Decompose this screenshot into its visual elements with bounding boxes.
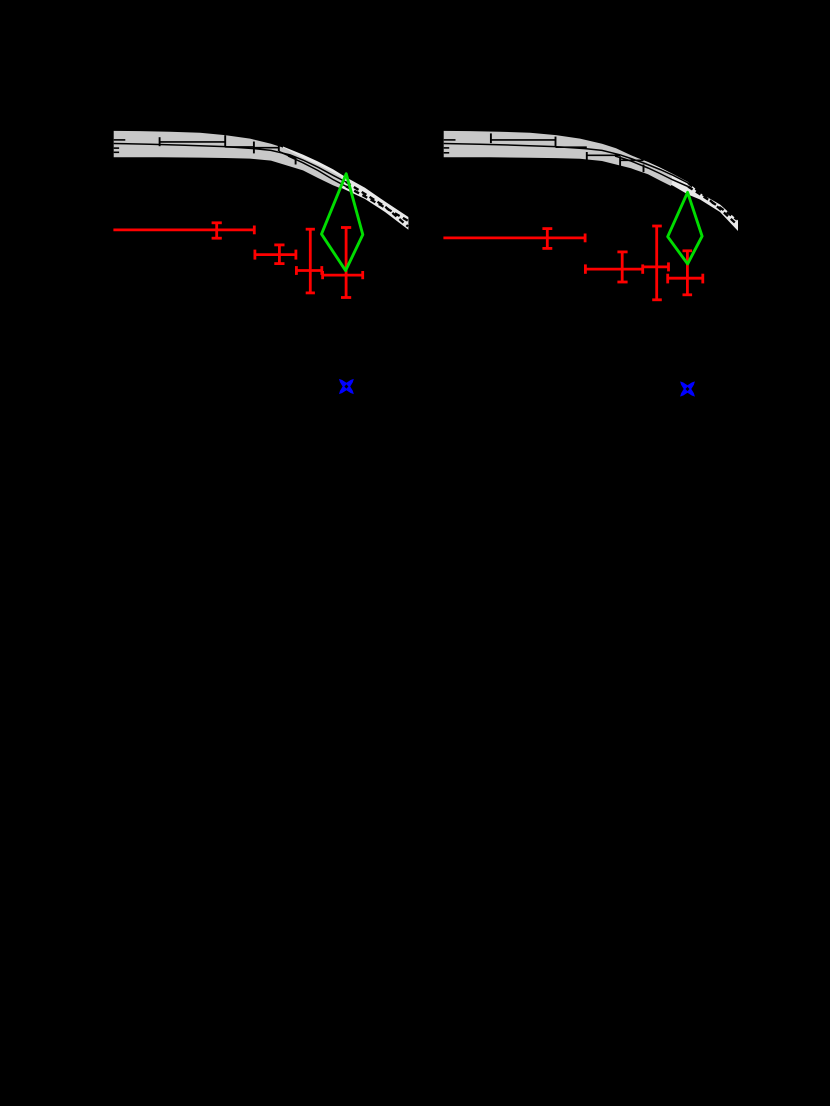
black tick bin edge 4, left panel xyxy=(278,146,280,152)
y-axis minor tick 2, left panel xyxy=(114,151,119,153)
black data bar bin1, right panel xyxy=(491,139,556,141)
black tick bin edge 2, right panel xyxy=(555,137,557,147)
black data bar bin4, left panel xyxy=(279,152,296,159)
black data bar bin2, right panel xyxy=(556,146,587,148)
theory curve 2 solid, left panel xyxy=(288,156,346,186)
black tick bin edge 1, left panel xyxy=(159,137,161,146)
dashed curve A, right panel xyxy=(688,183,737,225)
red data point 2, left panel xyxy=(255,245,296,264)
red data point 4, left panel xyxy=(323,228,363,298)
red data point 2, right panel xyxy=(585,252,642,282)
y-axis minor tick 1, right panel xyxy=(444,147,450,149)
dark grey uncertainty band, left panel xyxy=(114,131,343,189)
y-axis minor tick 2, right panel xyxy=(444,152,450,154)
green contour diamond, right panel xyxy=(668,192,702,264)
red data point 4, right panel xyxy=(668,251,703,295)
light uncertainty band (tail), left panel xyxy=(283,147,408,230)
blue star marker, left panel xyxy=(339,379,354,394)
theory curve 2 solid, right panel xyxy=(615,156,688,187)
black data bar bin4, right panel xyxy=(620,159,643,161)
black tick bin edge 4, right panel xyxy=(619,156,621,169)
red data point 3, left panel xyxy=(296,229,321,293)
blue star marker, right panel xyxy=(680,381,695,396)
light uncertainty band (tail), right panel xyxy=(612,150,738,232)
black tick bin edge 3, right panel xyxy=(586,152,588,164)
black data bar bin0, right panel xyxy=(444,139,456,141)
red data point 1, right panel xyxy=(443,229,585,249)
black data bar bin1, left panel xyxy=(160,141,226,143)
black tick bin edge 3, left panel xyxy=(253,142,255,154)
black tick bin edge 2, left panel xyxy=(224,135,226,147)
dark grey uncertainty band, right panel xyxy=(444,131,673,186)
black data bar bin3, left panel xyxy=(254,147,279,149)
dashed curve A, left panel xyxy=(346,182,408,227)
y-axis minor tick 1, left panel xyxy=(114,147,119,149)
black tick bin edge 5, left panel xyxy=(295,158,297,165)
theory curve 1 solid, left panel xyxy=(114,144,346,183)
theory curve 1 solid, right panel xyxy=(444,144,688,184)
red data point 1, left panel xyxy=(113,223,254,238)
red data point 3, right panel xyxy=(643,226,669,300)
dashed curve B, right panel xyxy=(688,187,737,220)
dashed curve B, left panel xyxy=(346,186,408,221)
black tick bin edge 1, right panel xyxy=(490,133,492,143)
black data bar bin3, right panel xyxy=(587,154,620,156)
black data bar bin0, left panel xyxy=(114,139,126,141)
black tick bin edge 5, right panel xyxy=(643,165,645,173)
black data bar bin2, left panel xyxy=(225,146,254,148)
green contour diamond, left panel xyxy=(322,174,363,271)
